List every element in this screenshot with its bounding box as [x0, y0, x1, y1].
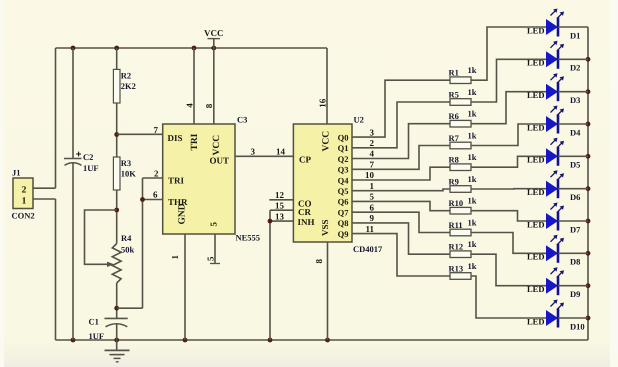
svg-text:2: 2	[370, 138, 375, 148]
svg-text:C2: C2	[83, 152, 93, 162]
svg-text:VSS: VSS	[320, 219, 330, 236]
svg-text:4: 4	[370, 149, 375, 159]
svg-text:1k: 1k	[468, 109, 477, 119]
svg-text:12: 12	[275, 190, 285, 200]
svg-text:D1: D1	[570, 30, 580, 40]
svg-text:R9: R9	[449, 176, 459, 186]
svg-text:CON2: CON2	[12, 211, 35, 221]
svg-text:1: 1	[170, 255, 180, 260]
svg-text:3: 3	[251, 146, 256, 156]
svg-text:LED: LED	[527, 219, 544, 229]
svg-text:CR: CR	[298, 207, 311, 217]
svg-text:R7: R7	[449, 133, 460, 143]
svg-text:1k: 1k	[468, 261, 477, 271]
svg-text:VCC: VCC	[204, 28, 224, 38]
svg-text:R4: R4	[121, 233, 132, 243]
svg-text:Q0: Q0	[338, 132, 349, 142]
svg-text:1k: 1k	[468, 87, 477, 97]
svg-text:1k: 1k	[468, 196, 477, 206]
svg-text:Q5: Q5	[338, 186, 349, 196]
svg-text:D8: D8	[570, 257, 580, 267]
svg-text:LED: LED	[527, 122, 544, 132]
svg-text:CD4017: CD4017	[353, 244, 383, 254]
svg-text:R5: R5	[449, 89, 459, 99]
svg-text:LED: LED	[527, 284, 544, 294]
svg-text:DIS: DIS	[168, 133, 183, 143]
svg-text:C3: C3	[237, 115, 247, 125]
svg-text:CP: CP	[299, 155, 311, 165]
svg-text:INH: INH	[298, 217, 315, 227]
svg-text:6: 6	[370, 202, 375, 212]
svg-text:8: 8	[204, 103, 214, 108]
svg-text:LED: LED	[527, 155, 544, 165]
svg-text:Q7: Q7	[338, 208, 350, 218]
svg-text:Q6: Q6	[338, 197, 349, 207]
svg-text:R11: R11	[449, 220, 463, 230]
svg-text:1k: 1k	[468, 152, 477, 162]
svg-text:D3: D3	[570, 95, 580, 105]
svg-text:16: 16	[317, 98, 327, 108]
svg-text:D7: D7	[570, 224, 581, 234]
svg-text:R1: R1	[449, 68, 459, 78]
svg-text:TRI: TRI	[190, 133, 200, 150]
svg-text:11: 11	[365, 224, 374, 234]
svg-text:1k: 1k	[468, 131, 477, 141]
svg-text:50k: 50k	[121, 245, 135, 255]
svg-text:1UF: 1UF	[83, 163, 99, 173]
svg-text:6: 6	[153, 190, 158, 200]
svg-text:Q2: Q2	[338, 154, 349, 164]
svg-text:2K2: 2K2	[121, 81, 136, 91]
svg-text:D5: D5	[570, 160, 580, 170]
svg-text:1UF: 1UF	[89, 331, 105, 341]
svg-text:3: 3	[370, 127, 375, 137]
svg-text:1k: 1k	[468, 239, 477, 249]
svg-text:5: 5	[206, 256, 216, 261]
svg-text:8: 8	[314, 259, 324, 264]
svg-text:5: 5	[370, 192, 375, 202]
svg-text:LED: LED	[527, 316, 544, 326]
svg-text:GND: GND	[178, 203, 188, 224]
svg-text:R10: R10	[449, 198, 464, 208]
svg-text:10: 10	[365, 170, 375, 180]
svg-text:10K: 10K	[121, 169, 137, 179]
svg-text:14: 14	[276, 146, 286, 156]
svg-text:Q8: Q8	[338, 218, 349, 228]
svg-text:1k: 1k	[468, 218, 477, 228]
svg-text:LED: LED	[527, 90, 544, 100]
svg-text:TRI: TRI	[168, 176, 185, 186]
svg-text:R3: R3	[121, 158, 131, 168]
svg-text:1: 1	[370, 181, 375, 191]
svg-text:4: 4	[184, 103, 194, 108]
svg-text:R8: R8	[449, 155, 459, 165]
svg-text:U2: U2	[354, 115, 364, 125]
svg-text:15: 15	[275, 201, 285, 211]
svg-text:R12: R12	[449, 242, 464, 252]
svg-text:1k: 1k	[468, 174, 477, 184]
svg-text:2: 2	[154, 169, 159, 179]
svg-text:C1: C1	[89, 317, 99, 327]
svg-text:Q4: Q4	[338, 175, 350, 185]
svg-text:R6: R6	[449, 111, 459, 121]
svg-text:R13: R13	[449, 263, 464, 273]
svg-text:Q9: Q9	[338, 229, 349, 239]
svg-text:D4: D4	[570, 127, 581, 137]
svg-text:1k: 1k	[468, 65, 477, 75]
svg-text:VCC: VCC	[322, 131, 332, 152]
svg-text:J1: J1	[12, 168, 21, 178]
svg-text:D6: D6	[570, 192, 580, 202]
svg-text:LED: LED	[527, 187, 544, 197]
svg-text:LED: LED	[527, 252, 544, 262]
svg-text:NE555: NE555	[236, 233, 261, 243]
svg-text:D10: D10	[570, 321, 585, 331]
svg-text:1: 1	[22, 197, 27, 207]
svg-text:9: 9	[370, 213, 375, 223]
svg-text:LED: LED	[527, 25, 544, 35]
svg-text:VCC: VCC	[212, 135, 222, 156]
svg-text:Q1: Q1	[338, 143, 349, 153]
svg-text:7: 7	[370, 160, 375, 170]
svg-text:R2: R2	[121, 71, 131, 81]
svg-text:13: 13	[275, 211, 285, 221]
svg-text:D9: D9	[570, 289, 580, 299]
svg-text:LED: LED	[527, 58, 544, 68]
svg-text:7: 7	[154, 125, 159, 135]
svg-text:D2: D2	[570, 63, 580, 73]
svg-text:Q3: Q3	[338, 165, 349, 175]
svg-text:5: 5	[209, 222, 219, 227]
svg-text:2: 2	[22, 185, 27, 195]
svg-text:OUT: OUT	[209, 156, 229, 166]
